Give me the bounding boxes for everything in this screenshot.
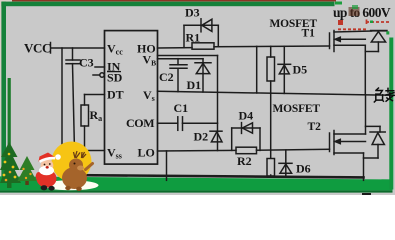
wire vertical node Vb down to D2 — [217, 56, 219, 132]
diode D6 (gate clamp, cathode up) — [279, 150, 292, 177]
svg-text:C3: C3 — [79, 56, 94, 70]
green frame right bar — [389, 38, 393, 190]
SD pin stub with inverter bubble — [93, 73, 104, 77]
svg-text:C2: C2 — [159, 70, 174, 84]
green frame top border — [1, 2, 334, 7]
diode (freewheel across T1, cathode up at rail) — [365, 32, 385, 52]
transistor T2 (N-MOSFET) — [330, 95, 366, 181]
svg-text:LO: LO — [138, 146, 155, 160]
svg-text:D6: D6 — [296, 162, 311, 176]
svg-text:D1: D1 — [187, 78, 202, 92]
diode D3 (anti-parallel over R1, cathode left) — [184, 19, 218, 48]
wire R2 to T2 gate — [257, 149, 330, 150]
diode D2 (cathode up) — [210, 131, 222, 150]
wire HO pin to R1 — [158, 47, 193, 49]
capacitor C1 — [158, 117, 218, 131]
wire R1 to T1 gate — [214, 45, 330, 48]
diode D1 (zener clamp, cathode up) — [195, 59, 211, 92]
resistor (gate-source, T2) — [267, 159, 275, 178]
reindeer — [62, 151, 93, 191]
VCC terminal — [51, 43, 105, 54]
wire vertical branch from VCC rail down to Vss rail — [61, 48, 63, 151]
sticker: santa and reindeer — [36, 142, 99, 192]
svg-text:D4: D4 — [239, 109, 254, 123]
sticker: big christmas tree — [0, 142, 21, 188]
wire Vs rail down to lower gate resistor — [270, 93, 272, 158]
resistor (gate-source, T1) — [267, 46, 275, 93]
green marks top right — [335, 2, 342, 5]
diode D5 (gate clamp, cathode up) — [278, 46, 291, 93]
resistor R1 — [192, 43, 214, 49]
svg-text:T1: T1 — [302, 28, 316, 40]
wire Vss rail — [62, 150, 105, 152]
santa — [36, 153, 61, 191]
svg-text:DT: DT — [107, 88, 124, 102]
sticker: hanging string — [8, 78, 11, 145]
diode D4 (anti-parallel over R2, cathode left) — [232, 123, 260, 151]
label 负载 (load), simplified strokes — [374, 88, 395, 103]
green frame bottom band — [0, 176, 393, 190]
svg-text:D5: D5 — [293, 63, 308, 77]
wire T1 source down to load rail — [364, 45, 366, 94]
resistor Ra (dead-time setting) — [81, 95, 105, 151]
svg-text:MOSFET: MOSFET — [273, 103, 321, 115]
capacitor C3 — [66, 48, 80, 151]
red outer frame line (top) + light outer margin (left) — [0, 0, 336, 2]
svg-text:T2: T2 — [308, 121, 322, 133]
svg-text:VCC: VCC — [24, 41, 51, 56]
red pen scribbles near 600V rail — [338, 20, 389, 30]
svg-text:C1: C1 — [174, 101, 189, 115]
capacitor C2 (bootstrap) — [170, 59, 187, 92]
wire VCC to IC Vcc pin — [51, 47, 105, 49]
IN pin stub — [95, 66, 105, 68]
resistor R2 — [236, 147, 257, 154]
wire LO node down to bottom rail — [166, 151, 168, 180]
wire T2 source down to bottom rail — [363, 153, 365, 180]
wire T2 drain up to load rail — [365, 95, 367, 134]
wire Vs / load rail — [158, 91, 395, 95]
wire Vb pin — [158, 55, 218, 57]
green frame left border — [1, 2, 6, 178]
sticker: small christmas tree — [18, 156, 37, 185]
dark green strip under bottom band — [0, 190, 393, 192]
wire LO pin to R2 — [158, 149, 237, 152]
svg-text:D3: D3 — [185, 6, 200, 20]
diode (freewheel across T2, cathode up) — [364, 126, 386, 158]
wire 600V top rail / cathode bar — [371, 30, 387, 32]
svg-text:R1: R1 — [186, 31, 201, 45]
svg-text:COM: COM — [126, 116, 154, 130]
wire top rail of C2/D1 — [158, 58, 204, 60]
transistor T1 (N-MOSFET) — [330, 31, 372, 95]
svg-text:up to 600V: up to 600V — [333, 5, 391, 20]
svg-text:SD: SD — [107, 71, 123, 85]
wire bottom ground rail — [62, 175, 364, 177]
op-amp driver IC U1 box — [105, 31, 158, 165]
svg-text:R2: R2 — [237, 154, 252, 168]
svg-text:D2: D2 — [194, 130, 209, 144]
black mark bottom edge — [362, 193, 371, 195]
wire gate node down to Vs rail — [256, 46, 258, 93]
